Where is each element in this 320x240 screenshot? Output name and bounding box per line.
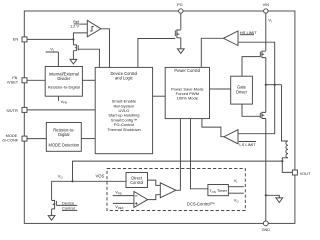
wire VFB stub bbox=[58, 96, 60, 101]
transistor PG open-drain bbox=[175, 29, 181, 38]
wire LS gate from gate driver bbox=[242, 104, 260, 116]
wire divider to logic bbox=[82, 79, 95, 81]
svg-text:TON Timer: TON Timer bbox=[209, 188, 227, 194]
ground EN FET bbox=[72, 51, 74, 60]
wire VOUT feedback to VOS bbox=[73, 161, 283, 181]
block DCS-Control dashed bbox=[107, 169, 245, 211]
svg-text:VO: VO bbox=[58, 174, 64, 180]
transistor output discharge bbox=[52, 200, 57, 209]
wire HS source to SW node bbox=[265, 58, 267, 85]
block Device Control and Logic bbox=[95, 67, 152, 153]
wire comparator input VFB bbox=[113, 195, 134, 197]
wire EN FET gate to logic bbox=[78, 49, 99, 67]
wire discharge FET gate stub bbox=[56, 204, 77, 206]
wire LS sense input bbox=[238, 85, 275, 134]
node EN junction bbox=[72, 38, 74, 40]
wire EN to comparator input bbox=[73, 33, 87, 40]
wire inductor to VOUT pin bbox=[282, 158, 292, 173]
svg-text:VFB: VFB bbox=[115, 190, 121, 196]
wire driver output to power control bbox=[176, 119, 181, 191]
wire PG drain bbox=[180, 13, 182, 30]
wire internal ground tie bbox=[266, 195, 280, 198]
op-amp driver stage bbox=[160, 183, 176, 198]
transistor LS switch bbox=[260, 112, 266, 119]
wire EN from pin bbox=[27, 38, 74, 40]
svg-text:DCS-Control™: DCS-Control™ bbox=[187, 201, 215, 206]
label Ref 1.2V bbox=[70, 20, 80, 29]
label VO bbox=[58, 174, 64, 180]
svg-text:Digital: Digital bbox=[58, 132, 69, 137]
wire Ton timer VI input bbox=[228, 186, 243, 188]
wire VOS discharge branch bbox=[51, 181, 53, 200]
svg-text:VOS: VOS bbox=[96, 174, 105, 179]
ground discharge FET bbox=[51, 209, 53, 216]
inductor L bbox=[286, 141, 288, 158]
svg-text:Driver: Driver bbox=[236, 90, 248, 95]
label VOS bbox=[96, 174, 105, 179]
svg-text:Power Control: Power Control bbox=[174, 68, 200, 73]
svg-text:HS LIMIT: HS LIMIT bbox=[240, 30, 257, 35]
wire LS comparator output to power control bbox=[202, 119, 224, 137]
wire HS comparator output to power control bbox=[201, 38, 223, 67]
wire Ton timer VO input bbox=[228, 192, 243, 194]
op-amp HS LIMIT comparator bbox=[223, 31, 238, 46]
svg-text:Divider: Divider bbox=[57, 76, 71, 81]
wire SW to LS drain bbox=[265, 85, 267, 113]
pin PG bbox=[177, 3, 183, 7]
wire power control to Ton timer bbox=[191, 119, 208, 189]
block divider Internal/External Divider bbox=[45, 67, 82, 97]
op-amp DCS comparator bbox=[134, 192, 148, 208]
pin MODE/S-CONF bbox=[22, 136, 27, 141]
svg-text:PG: PG bbox=[177, 3, 183, 7]
svg-text:SS/TR: SS/TR bbox=[6, 108, 18, 113]
op-amp LS LIMIT comparator bbox=[224, 130, 238, 144]
svg-text:Control: Control bbox=[62, 206, 75, 211]
pin GND bbox=[263, 221, 268, 226]
svg-text:1.2 V: 1.2 V bbox=[70, 25, 79, 29]
pin VOUT bbox=[292, 170, 297, 175]
ground PG FET bbox=[180, 38, 182, 49]
svg-text:Resistor-to-Digital: Resistor-to-Digital bbox=[48, 84, 80, 89]
label VI on VIN line bbox=[268, 18, 272, 24]
wire Direct Control output bbox=[148, 180, 161, 185]
IC outline bbox=[24, 11, 295, 223]
block Power Control bbox=[165, 67, 209, 118]
wire SS/TR to logic bbox=[27, 109, 96, 111]
transistor HS switch bbox=[260, 51, 266, 58]
pin FB/VSET bbox=[22, 78, 27, 83]
svg-text:MODE Detection: MODE Detection bbox=[48, 143, 79, 148]
wire PG gate from logic bbox=[138, 39, 175, 68]
svg-text:VI: VI bbox=[50, 47, 54, 53]
wire HS gate bbox=[242, 57, 260, 77]
label Device Control bbox=[62, 200, 75, 210]
pin VIN bbox=[263, 3, 270, 7]
pin EN bbox=[22, 37, 27, 42]
svg-text:VI: VI bbox=[234, 178, 238, 184]
wire comparator output bbox=[148, 195, 161, 200]
svg-text:LS LIMIT: LS LIMIT bbox=[239, 142, 256, 147]
wire FB to divider bbox=[27, 79, 46, 81]
wire Ref stub bbox=[79, 23, 87, 25]
block Direct Control bbox=[126, 173, 148, 188]
svg-text:/S-CONF: /S-CONF bbox=[2, 138, 19, 143]
svg-text:EN: EN bbox=[13, 36, 19, 41]
node VOUT sense junction bbox=[281, 160, 283, 162]
transistor EN pulldown bbox=[72, 39, 74, 44]
wire MODE to detector bbox=[27, 138, 47, 140]
block MODE detection bbox=[46, 123, 81, 152]
wire VIN down to HS FET bbox=[265, 13, 267, 51]
op-amp EN comparator bbox=[87, 20, 101, 37]
wire power control to gate driver bbox=[210, 88, 231, 90]
wire LS source to GND bbox=[265, 119, 267, 222]
block Ton Timer bbox=[208, 185, 229, 196]
wire detector to logic bbox=[81, 138, 95, 140]
supply tap VI to divider bbox=[46, 52, 59, 67]
ground internal symbol bbox=[276, 198, 283, 203]
wire VOS to Direct Control bbox=[52, 180, 126, 182]
node SW junctions bbox=[265, 84, 267, 86]
node ground junction bbox=[265, 194, 267, 196]
wire SW to inductor bbox=[282, 85, 289, 141]
svg-text:VREF: VREF bbox=[115, 204, 124, 210]
block Gate Driver bbox=[231, 76, 253, 104]
pin SS/TR bbox=[22, 107, 27, 112]
svg-text:and Logic: and Logic bbox=[115, 76, 133, 81]
svg-text:/VSET: /VSET bbox=[7, 80, 19, 85]
wire SW node horizontal bbox=[266, 84, 282, 86]
svg-text:Thermal Shutdown: Thermal Shutdown bbox=[107, 127, 141, 132]
svg-text:VO: VO bbox=[234, 198, 240, 204]
svg-text:VOUT: VOUT bbox=[300, 171, 311, 176]
svg-text:100% Mode: 100% Mode bbox=[177, 96, 199, 101]
wire comparator input VREF bbox=[113, 202, 134, 204]
svg-text:GND: GND bbox=[262, 228, 271, 232]
svg-text:VIN: VIN bbox=[263, 3, 270, 7]
wire HS current sense bbox=[238, 42, 275, 84]
wire EN comparator output bbox=[101, 29, 110, 68]
svg-text:Control: Control bbox=[130, 180, 143, 185]
svg-text:VI: VI bbox=[268, 18, 272, 24]
node VOS junction bbox=[71, 180, 73, 182]
wire logic to power control bbox=[153, 95, 166, 97]
svg-text:VFB: VFB bbox=[61, 99, 67, 105]
